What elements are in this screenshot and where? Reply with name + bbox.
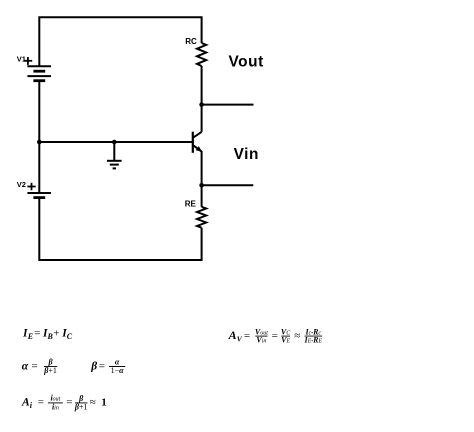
junction ground tap bbox=[112, 140, 117, 145]
svg-text:V2: V2 bbox=[17, 180, 26, 189]
svg-text:β+1: β+1 bbox=[74, 402, 88, 411]
wire top rail V1 to RC bbox=[39, 17, 201, 66]
junction collector node bbox=[199, 102, 204, 107]
battery V1 bbox=[27, 66, 51, 80]
svg-text:≈: ≈ bbox=[90, 397, 96, 409]
svg-text:=: = bbox=[244, 330, 250, 342]
svg-text:=: = bbox=[272, 330, 278, 342]
wire collector vertical bbox=[201, 105, 203, 132]
svg-text:=: = bbox=[34, 328, 40, 340]
svg-text:≈: ≈ bbox=[294, 330, 300, 342]
plus sign of V2 bbox=[27, 183, 35, 191]
plus sign of V1 bbox=[24, 57, 32, 65]
svg-text:V1: V1 bbox=[17, 54, 26, 63]
wire bottom rail V2 to RE bbox=[39, 198, 201, 260]
svg-text:=: = bbox=[66, 397, 72, 409]
svg-text:β: β bbox=[90, 360, 97, 372]
svg-text:α: α bbox=[22, 360, 29, 372]
resistor RE bbox=[197, 207, 206, 228]
svg-text:E: E bbox=[27, 332, 33, 341]
svg-text:i: i bbox=[30, 401, 33, 410]
wire RE to emitter junction bbox=[201, 185, 203, 207]
svg-text:Vin: Vin bbox=[256, 336, 266, 345]
resistor RC bbox=[197, 43, 206, 66]
formula alpha = beta/(beta+1) bbox=[22, 358, 57, 375]
svg-text:β+1: β+1 bbox=[43, 366, 57, 375]
ground bbox=[107, 142, 122, 168]
formula beta = alpha/(1-alpha) bbox=[90, 358, 125, 375]
svg-text:=: = bbox=[38, 397, 44, 409]
wire V1 to V2 (left rail) bbox=[38, 81, 40, 193]
formula IE = IB + IC bbox=[22, 328, 73, 341]
svg-text:+: + bbox=[53, 328, 59, 340]
wire emitter vertical bbox=[201, 151, 203, 185]
svg-text:V: V bbox=[237, 334, 243, 343]
svg-text:Vout: Vout bbox=[229, 54, 264, 71]
formula Ai = iout/iin = beta/(beta+1) approx 1 bbox=[21, 394, 107, 412]
svg-text:A: A bbox=[21, 397, 30, 409]
svg-text:C: C bbox=[67, 332, 73, 341]
svg-text:=: = bbox=[99, 360, 105, 372]
battery V2 bbox=[27, 193, 51, 198]
svg-text:A: A bbox=[228, 328, 237, 342]
svg-text:1−α: 1−α bbox=[111, 366, 125, 375]
svg-text:Vin: Vin bbox=[234, 146, 259, 163]
svg-text:IE•RE: IE•RE bbox=[304, 336, 323, 345]
wire base bbox=[39, 141, 193, 143]
svg-text:iin: iin bbox=[52, 402, 59, 411]
svg-text:RC: RC bbox=[185, 37, 197, 46]
svg-text:VE: VE bbox=[281, 336, 290, 345]
junction left-mid bbox=[37, 140, 42, 145]
wire collector to RC bbox=[201, 66, 203, 105]
transistor Q1 bbox=[193, 132, 202, 153]
svg-text:RE: RE bbox=[185, 200, 197, 209]
svg-text:1: 1 bbox=[101, 397, 107, 409]
junction emitter node bbox=[199, 183, 204, 188]
wire collector stub right bbox=[202, 104, 254, 106]
wire emitter stub right bbox=[202, 184, 254, 186]
formula AV = Vout/Vin = VC/VE approx IcRc/IeRe bbox=[228, 327, 323, 344]
svg-text:=: = bbox=[32, 360, 38, 372]
